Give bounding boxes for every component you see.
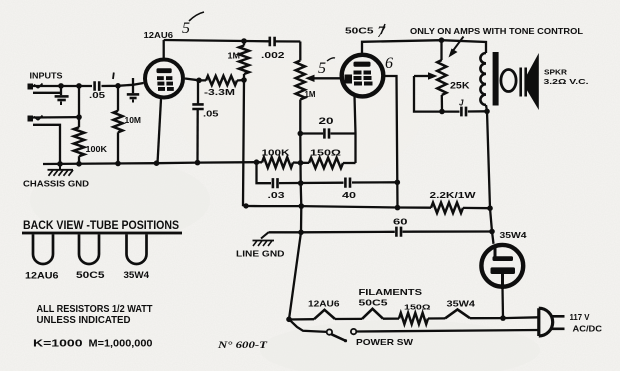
svg-text:INPUTS: INPUTS [30,71,63,81]
tube V3 cathode [491,267,516,289]
pin 5 handwritten (50C5) [318,58,335,77]
svg-text:CHASSIS GND: CHASSIS GND [23,179,89,189]
label 40 [342,190,356,200]
heater 12AU6 filament [314,310,335,319]
annotation arrow to 25K [449,37,464,58]
tube V2 plate bar [354,62,371,67]
wire wiper U-loop [414,76,460,112]
wire V2 plate lead down [384,76,398,208]
label No 600-T [217,340,269,351]
svg-text:10M: 10M [125,116,142,125]
svg-text:50C5: 50C5 [345,26,374,36]
capacitor C6 40 (bars) [345,178,350,188]
svg-text:2.2K/1W: 2.2K/1W [430,190,477,200]
node junction dot filament left [286,317,292,323]
potentiometer R5 1M volume (vertical) [296,61,305,100]
node junction dot 60 left [298,230,304,236]
node junction dot B+ 2.2K [487,205,493,211]
svg-text:.002: .002 [261,50,285,60]
svg-text:35W4: 35W4 [447,300,476,309]
wire J1 sleeve [33,92,61,94]
resistor R6 150 ohm cathode (horizontal) [301,158,356,168]
pin 6 handwritten [385,55,393,72]
svg-text:BACK VIEW -TUBE POSITIONS: BACK VIEW -TUBE POSITIONS [23,218,179,232]
label .002 [261,50,285,60]
label 50C5 V2 [345,26,374,36]
resistor R2 10M (vertical) [113,86,122,164]
label 50C5 filament [359,299,389,308]
wire V1 bottom lead [158,99,162,163]
label FILAMENTS [359,287,423,297]
wire filament seg3 [383,317,399,319]
label 10M [125,116,142,125]
label 3.2 ohm V.C. [544,77,589,86]
plug prongs [552,316,565,329]
resistor R1 100K input (vertical) [74,127,84,163]
svg-text:12AU6: 12AU6 [308,300,340,309]
heater 35W4 filament [445,310,470,319]
node junction dot input B [76,83,82,89]
label 150 ohm filament [404,303,431,312]
note K and M values [33,339,153,350]
node junction dot at 10M top [115,83,121,89]
label 35W4 filament [447,300,476,309]
svg-text:.05: .05 [89,91,106,100]
svg-text:ONLY ON AMPS WITH TONE CONTROL: ONLY ON AMPS WITH TONE CONTROL [410,27,583,36]
wire filament seg2 [335,318,362,320]
tube V2 grid block [345,71,373,86]
speaker cone [527,53,539,110]
wire feedback vertical 1M-junction down to 2.2K bus [243,80,262,206]
tube V1 plate bar [157,68,172,73]
legend heading BACK VIEW - TUBE POSITIONS [22,218,182,234]
label tube position 35W4 [124,270,150,280]
label CHASSIS GND [23,179,89,189]
wire top bus (12AU6 top to 1M/.002 junction) [164,40,301,42]
resistor R7 100K (horizontal) [262,157,301,167]
svg-text:M=1,000,000: M=1,000,000 [89,339,153,350]
capacitor C1 .05 input (bars) [95,81,100,91]
svg-text:5: 5 [318,60,326,77]
svg-text:N° 600-T: N° 600-T [217,340,269,351]
label .03 [268,190,285,200]
svg-text:20: 20 [319,116,334,126]
wire 12AU6 top lead [163,40,165,58]
svg-text:UNLESS INDICATED: UNLESS INDICATED [37,315,131,326]
tube position outline 12AU6 [33,234,53,264]
label 35W4 V3 [500,230,527,240]
input jack J1 [28,84,43,90]
node junction dot bus plate [395,205,401,211]
node junction dot plate/1M [241,77,247,83]
svg-text:.03: .03 [268,190,285,200]
node junction dot cathode bus [298,160,304,166]
wire ground bus [43,162,262,164]
svg-text:5: 5 [182,20,190,37]
label LINE GND [236,249,285,259]
svg-text:150Ω: 150Ω [404,303,431,312]
label 20 [319,116,334,126]
svg-text:100K: 100K [262,148,291,158]
node junction dot pot bottom [439,109,445,115]
wire V1 plate to -3.3M [185,79,206,81]
wire .05 to grid of 12AU6 [102,83,144,86]
svg-text:FILAMENTS: FILAMENTS [359,287,423,297]
transformer T1 primary coil [480,52,498,106]
label 12AU6 V1 [144,30,174,40]
node junction dot transformer bottom [484,109,490,115]
svg-text:.05: .05 [203,110,219,119]
wire filament seg4 [428,317,445,319]
capacitor C4 20 (bars) [324,128,329,138]
node bus dot c [115,161,121,167]
capacitor C2 .002 (bars) [270,37,275,47]
pot R9 wiper arrow [414,72,438,79]
node bus dot b [76,161,82,167]
svg-text:-3.3M: -3.3M [204,88,236,97]
node junction dot J2 tip [76,114,82,120]
switch SW1 blade [332,334,348,342]
wire .002 corner down to pot [299,42,301,61]
svg-text:K=1000: K=1000 [33,339,83,350]
svg-text:1M: 1M [305,90,316,99]
capacitor C8 tone (bars) [461,107,466,117]
tube position outline 35W4 [127,234,147,264]
svg-text:35W4: 35W4 [124,270,150,280]
tube V2 50C5 envelope [342,55,384,97]
wire 20 cap branch [300,132,355,134]
label SPKR [544,68,568,77]
input jack J2 [28,116,43,122]
line gnd symbol [253,232,275,246]
tube V3 35W4 envelope [481,245,523,287]
label .05 second [203,110,219,119]
svg-text:LINE GND: LINE GND [236,249,285,259]
node bus dot a [57,161,63,167]
label .05 input [89,91,106,100]
wire J2 sleeve down to bus [33,125,60,164]
node bus dot f [254,159,260,165]
resistor R10 150 ohm filament [399,313,428,324]
label 12AU6 filament [308,300,340,309]
node junction dot 60 right [489,229,495,235]
label 60 [393,217,408,227]
svg-text:50C5: 50C5 [359,299,389,308]
svg-text:SPKR: SPKR [544,68,568,77]
wire 60 branch [269,230,493,233]
label tube position 12AU6 [25,271,59,281]
resistor R8 2.2K/1W (horizontal) [431,203,490,213]
svg-text:117 V: 117 V [570,313,591,322]
node junction dot 25K top [439,37,445,43]
node junction dot bus corner [243,203,248,208]
node junction dot 40/plate [395,180,401,186]
label AC/DC [573,325,603,334]
capacitor C7 60 (bars) [396,227,401,237]
label ONLY ON AMPS WITH TONE CONTROL [410,27,583,36]
speaker voice coil [501,70,516,92]
potentiometer R9 25K (vertical) [437,40,446,111]
tube position outline 50C5 [79,234,99,264]
node bus dot d [154,160,160,166]
pin 5 handwritten (12AU6) [182,12,204,37]
pin 1 tick [112,73,115,80]
wire 2.2K bus [262,206,431,208]
svg-text:POWER SW: POWER SW [356,337,414,347]
label 1M pot [305,90,316,99]
capacitor C5 .03 (bars) [273,178,278,188]
label POWER SW [356,337,414,347]
label 150 ohm cathode [310,149,342,158]
label tube position 50C5 [76,270,105,280]
wire switch branch [289,319,327,332]
chassis ground symbol [48,164,74,176]
wire switch to plug [356,330,538,332]
wire filament left segment [288,318,314,321]
plug body 117V [539,308,553,336]
wire J1 tip to .05 cap [33,85,92,87]
node junction dot .03 wire [298,180,304,186]
label 100K second [262,148,291,158]
node junction dot at 1M top [241,38,247,44]
node junction dot .05 hang [196,78,202,84]
heater 50C5 filament [362,309,383,319]
wire tone cap to B+ [468,110,487,112]
node junction dot input A [58,83,64,89]
svg-text:3.2Ω V.C.: 3.2Ω V.C. [544,77,589,86]
svg-text:40: 40 [342,190,356,200]
speaker magnet bars [521,68,526,97]
label INPUTS [30,71,63,81]
switch SW1 contact left [327,329,332,334]
wire .03-40 branch [257,162,398,183]
label tone cap [459,99,464,108]
pin 7 handwritten [377,24,386,41]
label 1M (plate load) [228,51,241,61]
node junction dot bus center [299,203,305,209]
svg-text:12AU6: 12AU6 [25,271,59,281]
label -3.3M [204,88,236,97]
wire V3 bottom lead [501,288,504,318]
svg-text:25K: 25K [450,81,470,91]
node junction dot 20 branch [298,131,304,137]
svg-text:AC/DC: AC/DC [573,325,603,334]
svg-text:1M: 1M [228,51,241,61]
tube V3 plate [493,245,514,261]
node junction dot 35W4 filament [500,315,506,321]
svg-text:35W4: 35W4 [500,230,527,240]
wire J2 tip [33,116,79,119]
label 2.2K/1W [430,190,477,200]
wire pot bottom rail down [289,100,301,320]
label 117V [570,313,591,322]
svg-text:100K: 100K [86,144,108,154]
node bus dot e [195,160,201,166]
svg-text:60: 60 [393,217,408,227]
tube V1 grid block [157,76,174,91]
wire V2 grid-top lead [362,40,486,54]
resistor R4 -3.3M (horizontal) [206,76,244,85]
svg-text:6: 6 [385,55,393,72]
svg-text:J: J [459,99,464,108]
ground at 12AU6 cathode [127,78,139,103]
capacitor C3 .05 (horizontal bars) [192,80,203,162]
tube V1 12AU6 envelope [145,60,183,98]
wire input B down to 100K [78,86,80,127]
svg-text:ALL RESISTORS 1/2 WATT: ALL RESISTORS 1/2 WATT [37,304,154,315]
wire filament to plug [470,316,539,319]
ground under input A [55,86,69,105]
resistor R3 1M plate load (vertical) [239,41,249,80]
label 25K [450,81,470,91]
note all resistors [37,304,154,326]
wire transformer bottom lead [486,105,494,244]
switch SW1 contact right [351,329,356,334]
label 100K input [86,144,108,154]
svg-text:150Ω: 150Ω [310,149,342,158]
svg-text:12AU6: 12AU6 [144,30,174,40]
wire V2 cathode lead down [355,96,356,163]
svg-text:50C5: 50C5 [76,270,105,280]
pot R5 wiper arrow [305,75,341,82]
